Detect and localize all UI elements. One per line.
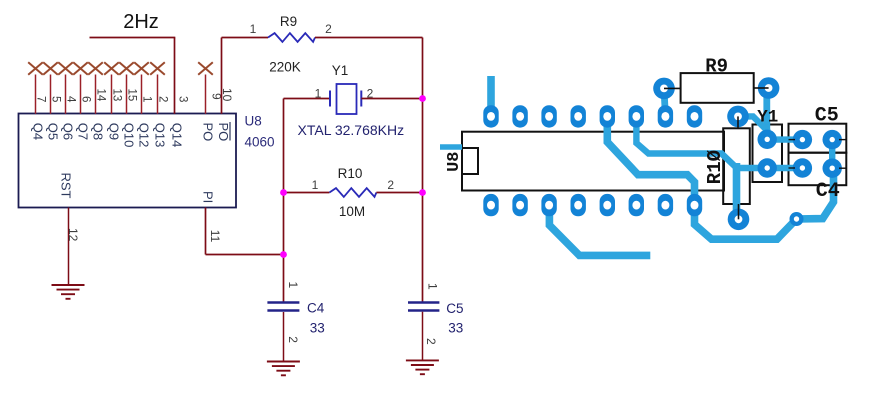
junction node B R10 [419,189,426,196]
wire PI right [206,254,284,256]
wire 2Hz [90,37,176,39]
pcb U8 pad top 3 [541,105,556,127]
svg-text:14: 14 [95,89,107,102]
svg-text:Q14: Q14 [170,123,185,148]
trace R9.1 to pin10 pad [664,88,665,116]
svg-text:Q12: Q12 [137,123,152,148]
svg-text:11: 11 [208,230,222,243]
capacitor C4 bottom plate [267,309,299,311]
pcb C4 pad 1 [793,158,812,177]
trace R10.top to Y1.1 [738,116,767,139]
trace gnd net [607,116,833,239]
trace Y1.1 to C5.1 [767,136,802,142]
capacitor C5 bottom plate [408,309,439,311]
no-connect X pin 14 [88,62,103,74]
pin 2 wire [157,75,159,114]
wire R9 to node B [315,37,423,39]
svg-text:Q10: Q10 [122,123,137,148]
svg-text:220K: 220K [269,60,301,75]
svg-text:R1Ø: R1Ø [704,150,726,184]
no-connect X pin 7 [28,62,43,74]
pcb U8 pad bottom 3 [541,194,556,216]
svg-text:Q8: Q8 [91,123,106,140]
pcb U8 pad bottom 8 [687,194,702,216]
svg-text:Y1: Y1 [332,63,349,78]
trace pad B3 stub [549,205,650,255]
pcb R9 lead right [754,87,769,89]
trace node A to C4.1 [737,165,803,171]
ground C5 [406,360,439,374]
svg-text:4: 4 [65,96,77,103]
wire xtal left [284,98,331,100]
pcb C5 pad 2 [823,130,842,149]
pcb C5 pad 1 [793,130,812,149]
wire pin10 up [221,38,223,114]
junction node A R10 [280,189,287,196]
svg-text:XTAL 32.768KHz: XTAL 32.768KHz [298,122,405,138]
trace pad1 stub up [487,76,495,116]
svg-text:1: 1 [315,87,322,101]
pcb C4 lead right [839,167,846,169]
pcb C5 outline [789,124,847,153]
svg-text:Y1: Y1 [757,108,778,128]
no-connect X pin 4 [58,62,73,74]
pcb R9 pad 1 [653,78,675,100]
svg-text:2: 2 [286,336,300,343]
wire xtal right [361,98,422,100]
svg-text:12: 12 [66,228,80,242]
svg-text:R9: R9 [280,14,297,29]
wire C5 down [422,312,424,360]
pcb U8 pad bottom 2 [512,194,527,216]
svg-text:PO: PO [200,123,215,142]
pcb C4 lead left [789,167,796,169]
svg-text:33: 33 [310,321,325,336]
svg-text:1: 1 [312,178,319,192]
resistor R9 [268,33,315,42]
pcb Y1 outline [753,125,783,183]
trace node A to R10.bottom [733,163,741,219]
wire C4 down [283,312,285,361]
wire R10 right [376,192,422,194]
svg-text:2: 2 [157,96,169,102]
pcb U8 pad bottom 6 [629,194,644,216]
pcb U8 pad bottom 5 [600,194,615,216]
svg-text:C5: C5 [815,105,839,128]
svg-text:U8: U8 [245,114,262,129]
pcb Y1 pad 2 [758,158,777,177]
pin 15 wire [126,75,128,114]
pcb U8 pad top 7 [658,105,673,127]
pcb U8 pad top 5 [600,105,615,127]
svg-text:3: 3 [177,96,189,102]
svg-text:6: 6 [80,96,92,102]
svg-text:15: 15 [126,89,138,102]
pin 13 wire [111,75,113,114]
wire RST [68,208,70,285]
svg-text:U8: U8 [445,151,464,171]
pcb C4 outline [789,153,847,186]
capacitor C4 top plate [267,301,299,303]
svg-text:Q4: Q4 [31,123,46,140]
pcb C5 lead left [789,139,796,141]
ground RST [52,285,85,299]
svg-text:7: 7 [35,96,47,102]
svg-text:Q9: Q9 [107,123,122,140]
svg-text:5: 5 [50,96,62,102]
pcb U8 pad bottom 4 [571,194,586,216]
ground C4 [267,362,300,376]
pcb R10 lead top [737,116,739,128]
wire R10 left [284,192,330,194]
pcb C4 pad 2 [823,159,842,178]
no-connect X pin 1 [134,62,149,74]
svg-text:1: 1 [286,282,300,289]
svg-text:Q6: Q6 [61,123,76,140]
pcb U8 pad top 2 [512,105,527,127]
no-connect X pin 15 [119,62,134,74]
pcb U8 pad top 6 [629,105,644,127]
svg-text:1: 1 [426,283,440,290]
pcb R10 pad bottom [728,209,750,231]
pcb U8 pad top 1 [483,105,498,127]
pcb via [790,212,804,226]
junction node B xtal [419,95,426,102]
svg-text:C4: C4 [307,300,325,315]
svg-text:1: 1 [141,96,153,102]
crystal Y1 left plate [329,91,331,107]
pin 14 wire [95,75,97,114]
wire PI down [205,208,207,255]
pin 5 wire [50,75,52,114]
pcb U8 pad top 4 [571,105,586,127]
svg-text:C5: C5 [446,301,463,316]
svg-text:4060: 4060 [245,135,275,150]
wire node B vertical [422,38,424,303]
capacitor C5 top plate [408,301,439,303]
pcb R9 outline [681,73,754,103]
no-connect X pin 2 [150,62,165,74]
trace R9.2 to Y1.1 [763,88,770,139]
ic U8 4060 body [19,114,237,208]
svg-text:33: 33 [448,321,463,336]
pin 6 wire [80,75,82,114]
svg-text:C4: C4 [816,180,840,203]
pin 4 wire [65,75,67,114]
svg-text:2: 2 [387,178,394,192]
pcb R10 lead bottom [738,204,740,219]
pcb U8 pad top 8 [687,105,702,127]
PO overline [229,122,231,141]
pcb C5 lead right [839,139,846,141]
wire pin10 to R9 [222,37,269,39]
pcb Y1 pad 1 [758,130,777,149]
pin 1 wire [141,75,143,114]
svg-text:R10: R10 [338,166,363,181]
svg-text:13: 13 [111,89,123,102]
junction node A PI [280,251,287,258]
no-connect X pin 9 [198,62,213,74]
trace node A horizontal [636,116,736,167]
svg-text:Q13: Q13 [153,123,168,148]
no-connect X pin 13 [104,62,119,74]
pcb U8 outline [462,132,724,191]
pcb R10 outline [723,128,750,204]
crystal Y1 body [337,84,357,114]
svg-text:2: 2 [325,22,332,36]
wire 2Hz down pin3 [174,38,176,114]
svg-text:Q7: Q7 [76,123,91,140]
pcb R10 pad top [727,106,749,128]
pcb R9 lead left [664,87,681,89]
trace left stub [440,144,462,150]
svg-text:2Hz: 2Hz [123,11,159,33]
pcb R9 pad 2 [758,77,780,99]
pin 7 wire [35,75,37,114]
svg-text:RST: RST [59,173,74,199]
no-connect X pin 5 [43,62,58,74]
crystal Y1 right plate [360,91,362,107]
wire node A vertical [283,99,285,303]
pcb U8 pin1 notch [462,148,478,174]
trace C5.2 to C4.2 [829,140,835,169]
pin 9 wire [205,75,207,114]
svg-text:2: 2 [424,338,438,345]
no-connect X pin 6 [73,62,88,74]
svg-text:PI: PI [200,191,215,203]
svg-text:10M: 10M [339,204,365,219]
pcb U8 pad bottom 1 [483,194,498,216]
pcb U8 pad bottom 7 [658,194,673,216]
svg-text:Q5: Q5 [46,123,61,140]
svg-text:PO: PO [216,123,231,142]
svg-text:1: 1 [250,22,257,36]
svg-text:R9: R9 [705,56,728,78]
resistor R10 [329,188,376,197]
